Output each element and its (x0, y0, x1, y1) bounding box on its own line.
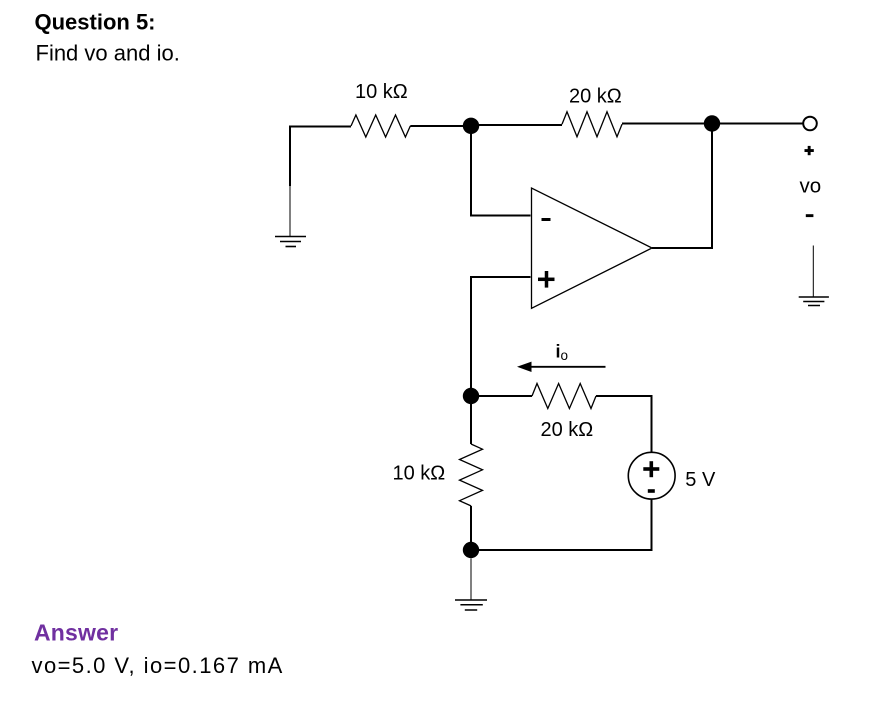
svg-text:Find vo and io.: Find vo and io. (36, 41, 180, 66)
svg-text:vo: vo (800, 175, 822, 198)
op-amp non-inverting input mark "+" (538, 271, 555, 288)
wire: op-amp output up to node B (652, 124, 712, 249)
wire: node A down to op-amp inverting input (471, 125, 531, 216)
wire: node C to R3 (471, 395, 532, 397)
wire: node C down to R4 (470, 396, 472, 444)
wire: V1 bottom to node D (471, 499, 652, 550)
label "+" (vo polarity top) (805, 146, 814, 155)
resistor R1 10 kΩ (top left) (351, 115, 410, 137)
resistor R4 10 kΩ (vertical) (460, 444, 483, 506)
svg-text:20 kΩ: 20 kΩ (541, 419, 594, 441)
wire: node B to output terminal (712, 123, 804, 125)
wire: R2 to node B (622, 123, 712, 125)
svg-text:10 kΩ: 10 kΩ (355, 81, 408, 103)
V1 plus mark (643, 461, 659, 477)
output terminal (open circle) (803, 117, 817, 131)
node C (junction dot, non-inverting net) (463, 388, 479, 404)
wire: node A to R2 (471, 124, 562, 126)
label "-" (vo polarity bottom) (806, 214, 814, 217)
wire: R1 to node A (410, 125, 471, 127)
op-amp U1 (triangle) (532, 188, 653, 308)
svg-text:20 kΩ: 20 kΩ (569, 86, 622, 108)
wire: ground G1 riser and top-left segment to R1 (290, 127, 351, 187)
op-amp inverting input mark "-" (542, 218, 551, 221)
wire: R4 to node D (470, 506, 472, 550)
current arrow io (pointing left) (517, 362, 606, 372)
svg-text:Answer: Answer (34, 620, 118, 646)
svg-text:5 V: 5 V (685, 469, 716, 491)
ground G1 (left) (275, 186, 306, 247)
resistor R2 20 kΩ (feedback) (562, 112, 622, 137)
node B (output junction dot) (704, 115, 720, 131)
node A (junction dot, inverting input net) (463, 118, 479, 134)
V1 minus mark (648, 489, 655, 493)
resistor R3 20 kΩ (lower, horizontal) (532, 384, 596, 409)
wire: R3 to source V1 top (596, 396, 652, 453)
svg-text:Question 5:: Question 5: (35, 10, 156, 35)
voltage source V1 (5 V) (628, 452, 675, 499)
ground G3 (bottom) (455, 559, 487, 611)
svg-text:vo=5.0 V, io=0.167 mA: vo=5.0 V, io=0.167 mA (32, 653, 284, 678)
node D (bottom junction dot) (463, 542, 479, 558)
svg-text:10 kΩ: 10 kΩ (393, 462, 446, 484)
svg-text:o: o (561, 348, 569, 363)
wire: op-amp non-inverting input to node C riser (471, 277, 531, 396)
ground G2 (below vo) (799, 246, 829, 306)
